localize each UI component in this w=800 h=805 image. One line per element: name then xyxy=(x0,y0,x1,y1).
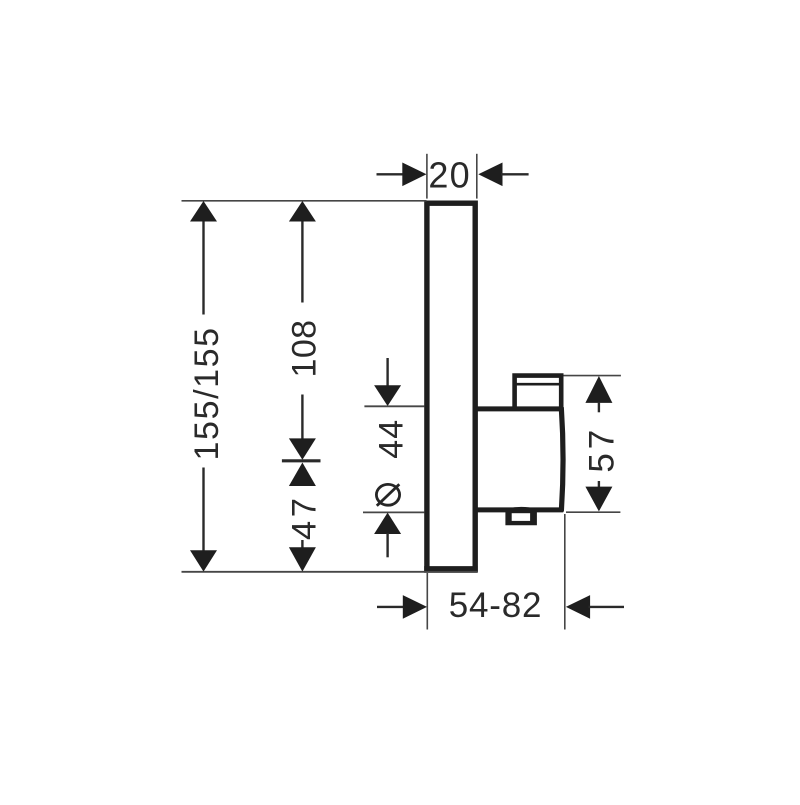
dim 44 lower tick xyxy=(363,511,425,513)
dim 155/155 arrow down xyxy=(190,550,217,571)
dim 47 stem below text xyxy=(301,540,303,548)
dim 57 top extension xyxy=(564,375,621,377)
dim 57 arrow down xyxy=(585,487,612,512)
dim 108 line upper stem xyxy=(301,219,303,303)
retaining tab below body xyxy=(505,507,537,525)
dim 54-82 left arrow xyxy=(403,595,427,619)
dim 20 left line xyxy=(377,173,405,175)
dim 44 arrow down xyxy=(374,385,401,406)
dim 47 arrow up xyxy=(289,463,316,487)
dim 44 upper stem xyxy=(386,358,388,387)
dim 54-82 right arrow xyxy=(566,595,590,619)
dim 57 arrow up xyxy=(585,376,612,403)
dim 20 right arrow xyxy=(478,163,502,187)
bottom extension line xyxy=(182,571,478,573)
dim 155/155 line lower stem xyxy=(202,468,204,553)
dim 54-82 left ext line xyxy=(426,573,428,630)
dim 44 lower stem xyxy=(386,533,388,557)
dim 20 ext line right xyxy=(476,154,478,199)
svg-text:44: 44 xyxy=(372,419,410,459)
svg-text:47: 47 xyxy=(285,495,323,540)
body top edge (runs under stub) xyxy=(472,406,563,411)
dim 57 lower stem xyxy=(598,481,600,488)
dim 20 left arrow xyxy=(402,163,426,187)
dim 20 right line xyxy=(501,173,529,175)
dim 44 upper tick xyxy=(364,405,424,407)
svg-text:155/155: 155/155 xyxy=(188,326,226,460)
dim 44 diameter symbol xyxy=(376,484,399,506)
dim 54-82 right line xyxy=(589,606,625,608)
dim 54-82 right ext line xyxy=(564,514,566,630)
dim 108 arrow down xyxy=(289,438,316,459)
valve body (right block) xyxy=(470,407,563,511)
centerline tick xyxy=(282,459,321,462)
dim 54-82 left line xyxy=(377,606,404,608)
wall plate (tall rectangle) xyxy=(424,203,477,570)
dim 57 upper stem xyxy=(598,402,600,412)
handle stub on top of body xyxy=(513,376,562,408)
svg-text:54-82: 54-82 xyxy=(449,586,543,625)
svg-text:108: 108 xyxy=(285,320,323,378)
dim 108 line lower stem xyxy=(301,395,303,440)
svg-text:20: 20 xyxy=(428,154,470,195)
dim 47 arrow down xyxy=(289,547,316,571)
dim 20 ext line left xyxy=(426,154,428,199)
dim 108 arrow up xyxy=(289,201,316,222)
dim 155/155 arrow up xyxy=(190,201,217,222)
svg-text:57: 57 xyxy=(583,426,622,473)
top extension line xyxy=(182,200,427,202)
dim 57 bottom extension xyxy=(566,511,620,513)
dim 44 arrow up xyxy=(374,513,401,534)
dim 155/155 line upper stem xyxy=(202,219,204,315)
